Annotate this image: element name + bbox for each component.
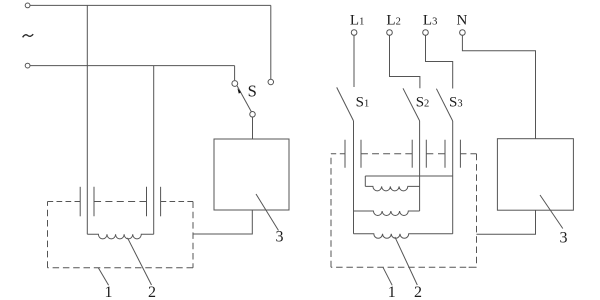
switch S left contact circle bbox=[232, 81, 238, 87]
capacitor plate bar 4b bbox=[425, 140, 427, 168]
svg-text:S1: S1 bbox=[356, 95, 370, 111]
dashed box right lamp: bottom edge bbox=[331, 266, 477, 268]
svg-text:1: 1 bbox=[388, 284, 396, 300]
capacitor plate bar 3b bbox=[360, 140, 362, 168]
switch S right contact circle bbox=[268, 79, 274, 85]
capacitor plate bar 5a bbox=[444, 140, 446, 168]
switch S3 blade bbox=[436, 89, 452, 121]
wire bottom line from T2 bbox=[30, 65, 235, 67]
dashed box 1 left lamp: top edge segments bbox=[48, 202, 194, 268]
svg-text:2: 2 bbox=[414, 284, 422, 300]
wire L3 jog to S3 contact bbox=[426, 35, 453, 88]
wire S3 to coil network (vertical C) bbox=[452, 121, 454, 234]
leader line label 2 right bbox=[395, 237, 417, 285]
terminal L1 circle bbox=[351, 30, 357, 36]
wire box3-left output to dashed box 1 bbox=[193, 210, 252, 234]
svg-text:N: N bbox=[457, 13, 468, 29]
dashed box 1 right lamp: top edge segments bbox=[331, 154, 477, 267]
wire top line from T1 bbox=[30, 4, 271, 6]
wire pivot to box 3 left bbox=[252, 117, 254, 139]
terminal L3 circle bbox=[423, 30, 429, 36]
capacitor plate bar 3a bbox=[344, 140, 346, 168]
coil 2 of autotransformer bbox=[354, 211, 420, 215]
leader line label 2 left bbox=[128, 238, 152, 285]
wire box3-right output to dashed box 1 right bbox=[477, 210, 536, 234]
wire drop H1 to coil 1 bbox=[364, 176, 366, 186]
dashed box 1: left edge bbox=[47, 202, 49, 268]
box 3 (right ballast) bbox=[497, 139, 573, 211]
dot in chain line at right box bottom corner bbox=[469, 267, 470, 268]
wire H1 top link in coil network bbox=[365, 175, 452, 177]
wire vertical branch right electrode bbox=[153, 66, 155, 235]
wire N to box 3 right bbox=[462, 35, 535, 138]
coil 1 of autotransformer bbox=[365, 186, 419, 190]
svg-text:S: S bbox=[248, 81, 257, 100]
leader line label 3 right bbox=[540, 195, 563, 229]
terminal T1 (AC source top) bbox=[25, 3, 30, 8]
svg-text:1: 1 bbox=[105, 284, 113, 300]
wire L1 to S1 contact bbox=[353, 35, 355, 87]
svg-text:L1: L1 bbox=[350, 13, 364, 29]
leader line label 3 left bbox=[256, 194, 279, 231]
capacitor plate bar 1b bbox=[93, 187, 95, 217]
svg-text:S3: S3 bbox=[449, 95, 463, 111]
svg-text:L3: L3 bbox=[423, 13, 437, 29]
box 3 (left ballast) bbox=[214, 139, 289, 210]
dashed box right lamp: right edge bbox=[476, 154, 478, 267]
svg-text:L2: L2 bbox=[386, 13, 400, 29]
leader line label 1 left bbox=[98, 268, 108, 286]
svg-text:2: 2 bbox=[148, 284, 156, 300]
wire stub to switch S left contact bbox=[234, 66, 236, 81]
wire vertical branch left electrode bbox=[86, 5, 88, 234]
wire S1 to coil network (vertical A) bbox=[353, 121, 355, 234]
AC source tilde symbol bbox=[23, 34, 34, 37]
capacitor plate bar 1a bbox=[79, 187, 81, 217]
svg-text:3: 3 bbox=[276, 229, 284, 246]
switch S2 blade bbox=[403, 88, 420, 121]
wire S2 to coil network (vertical B) bbox=[419, 121, 421, 211]
svg-text:S2: S2 bbox=[416, 95, 430, 111]
leader line label 1 right bbox=[383, 267, 392, 285]
capacitor plate bar 5b bbox=[459, 140, 461, 168]
switch S blade bbox=[237, 86, 251, 112]
switch S blade arrowhead bbox=[237, 88, 241, 93]
wire stub to switch S right contact bbox=[270, 5, 272, 79]
capacitor plate bar 2b bbox=[160, 187, 162, 217]
svg-text:3: 3 bbox=[560, 229, 568, 246]
dashed box 1: bottom edge bbox=[48, 267, 194, 269]
terminal T2 (AC source bottom) bbox=[25, 63, 30, 68]
dashed box right lamp: left edge bbox=[330, 154, 332, 267]
capacitor plate bar 4a bbox=[411, 140, 413, 168]
terminal N circle bbox=[460, 30, 466, 36]
coil 3 of autotransformer bbox=[354, 234, 453, 238]
coil 2 (left lamp inductor) bbox=[87, 234, 153, 239]
dashed box 1: right edge bbox=[192, 202, 194, 268]
switch S pivot circle bbox=[250, 112, 256, 118]
terminal L2 circle bbox=[387, 30, 393, 36]
wire L2 jog to S2 contact bbox=[390, 35, 420, 88]
capacitor plate bar 2a bbox=[146, 187, 148, 217]
switch S1 blade bbox=[337, 87, 354, 120]
